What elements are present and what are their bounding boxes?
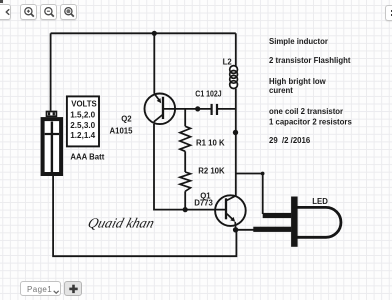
- svg-text:Quaid khan: Quaid khan: [86, 216, 156, 232]
- svg-text:one coil 2 transistor: one coil 2 transistor: [269, 107, 343, 116]
- wire top rail: [51, 32, 236, 34]
- wire LED upper branch: [236, 174, 263, 215]
- corner mark: [0, 0, 3, 3]
- zoom-fit button: [60, 4, 77, 20]
- back button: [0, 4, 11, 20]
- resistor R1: [180, 126, 191, 151]
- LED cathode bar: [291, 197, 298, 247]
- wire right rail mid: [235, 89, 237, 196]
- wire left rail top: [50, 33, 52, 110]
- svg-text:AAA Batt: AAA Batt: [70, 152, 104, 161]
- battery BT1 cap: [47, 112, 57, 117]
- LED cathode lead: [253, 227, 291, 232]
- zoom-in button: [20, 4, 37, 20]
- wire right rail upper: [235, 33, 237, 66]
- inductor L2: [230, 66, 238, 89]
- Q1 emitter arrowhead: [230, 217, 235, 222]
- node junction top: [152, 31, 157, 36]
- LED anode lead: [263, 213, 292, 218]
- svg-text:High bright low: High bright low: [269, 77, 327, 86]
- svg-text:curent: curent: [269, 86, 293, 95]
- svg-text:C1 102J: C1 102J: [195, 90, 221, 99]
- wire Q2 collector to Q1 base: [154, 124, 226, 210]
- svg-text:R1 10 K: R1 10 K: [196, 138, 225, 147]
- svg-text:Simple inductor: Simple inductor: [269, 37, 328, 46]
- wire C1 to right rail: [218, 108, 236, 110]
- svg-text:2.5,3.0: 2.5,3.0: [70, 121, 95, 130]
- wire R1 tap: [184, 109, 186, 126]
- svg-text:1 capacitor 2 resistors: 1 capacitor 2 resistors: [269, 117, 352, 126]
- wire Q2 emitter drop: [153, 33, 155, 93]
- svg-text:1.2,1.4: 1.2,1.4: [70, 131, 95, 140]
- transistor Q2: [145, 94, 176, 125]
- battery BT1 body: [43, 119, 62, 174]
- node junction base net: [195, 106, 200, 111]
- svg-text:VOLTS: VOLTS: [71, 100, 96, 109]
- svg-text:1.5,2.0: 1.5,2.0: [70, 110, 95, 119]
- wire LED lower branch: [236, 229, 256, 231]
- svg-text:29 /2 /2016: 29 /2 /2016: [269, 136, 311, 145]
- svg-text:Q2: Q2: [121, 114, 132, 123]
- svg-text:R2 10K: R2 10K: [198, 167, 225, 176]
- svg-text:D773: D773: [194, 199, 213, 208]
- wire bottom rail: [53, 176, 236, 256]
- svg-text:LED: LED: [312, 197, 328, 206]
- svg-text:A1015: A1015: [110, 127, 134, 136]
- zoom-out button: [40, 4, 57, 20]
- node junction Q1 emitter: [233, 227, 238, 232]
- capacitor C1: [212, 104, 217, 115]
- node junction R2 base: [183, 207, 188, 212]
- wire Q2 base to C1: [164, 108, 211, 110]
- svg-text:2 transistor Flashlight: 2 transistor Flashlight: [269, 56, 351, 65]
- value box VOLTS: [67, 96, 99, 146]
- svg-text:L2: L2: [223, 57, 233, 66]
- wire R2 to base rail: [184, 191, 186, 209]
- wire R1 to R2: [184, 151, 186, 172]
- transistor Q1: [215, 195, 246, 227]
- resistor R2: [180, 172, 191, 191]
- node junction right rail: [233, 130, 238, 135]
- page tab button: [20, 281, 61, 296]
- LED dome: [298, 207, 341, 237]
- node corner dot: [261, 172, 265, 176]
- add page button: [64, 281, 82, 296]
- menu button top-right: [385, 5, 392, 21]
- Q2 emitter arrowhead: [157, 98, 162, 103]
